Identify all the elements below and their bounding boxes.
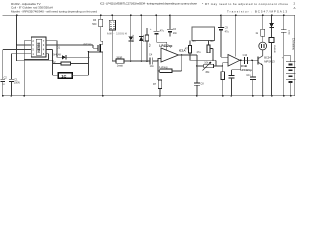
note text top middle [100, 2, 197, 6]
capacitor C8 [194, 66, 204, 96]
wire 555 pin2 row [24, 41, 31, 96]
resistor R8 [185, 40, 192, 60]
battery BT1 [282, 38, 296, 96]
resistor R7 [153, 71, 162, 96]
svg-text:47u: 47u [160, 29, 165, 32]
svg-text:1N4148: 1N4148 [52, 53, 61, 56]
wire op2 output row [240, 59, 258, 61]
svg-text:10n: 10n [150, 65, 155, 68]
svg-text:10n: 10n [173, 32, 178, 35]
node bias rail join [52, 60, 54, 62]
resistor R5 [145, 28, 150, 61]
resistor R4 damping [112, 56, 150, 67]
wire top supply bus [2, 14, 294, 16]
svg-text:AW - 100UH: AW - 100UH [107, 32, 127, 35]
wire op2 vplus [235, 15, 237, 56]
diode D2 [129, 15, 134, 61]
svg-text:1N4148: 1N4148 [142, 35, 144, 43]
node top bus junctions [16, 14, 285, 16]
wire to op-amp inverting input [158, 59, 161, 61]
capacitor C11 [229, 60, 241, 96]
svg-text:C10: C10 [243, 54, 248, 57]
potentiometer R9 [207, 40, 214, 61]
svg-text:1N4148: 1N4148 [273, 45, 275, 53]
svg-text:100N: 100N [14, 82, 20, 85]
inductor L2 choke [107, 15, 127, 61]
transistor Q2 BC547 [258, 50, 275, 96]
capacitor C9 [218, 15, 229, 57]
transistor Q1 IRF740 mosfet [83, 41, 103, 96]
node coil row joins [130, 60, 148, 62]
op-amp IC1A LF412 [159, 44, 186, 62]
diode D4 supply [269, 15, 274, 37]
wire source row [89, 51, 103, 53]
wire stage2 top rail [190, 60, 216, 66]
IC U1 555 timer [31, 37, 46, 57]
svg-text:1watt: 1watt [117, 65, 123, 68]
wire op1 output elbow [196, 55, 198, 66]
capacitor C4 coupling [149, 53, 158, 68]
resistor R13 [221, 66, 225, 96]
svg-text:LF412cp: LF412cp [241, 68, 253, 72]
svg-text:12v battery: 12v battery [292, 38, 295, 51]
wire to op2 inverting input [222, 63, 228, 66]
diode D1 1N4148 [52, 47, 89, 60]
wire clamp vertical [88, 52, 90, 75]
svg-text:IC2 - LF411/LM308/TLC271/62/ne: IC2 - LF411/LM308/TLC271/62/ne5534 - tun… [100, 2, 197, 6]
wire right edge [294, 15, 296, 96]
node bottom bus junctions [2, 95, 292, 97]
wire 555 pin8 wrap to ground [24, 54, 48, 60]
resistor R3 [92, 15, 103, 41]
wire bottom ground bus [2, 95, 294, 97]
svg-text:1C: 1C [61, 73, 66, 78]
svg-text:* R7 may need to be adjusted t: * R7 may need to be adjusted to componen… [202, 2, 288, 6]
wire bias rail [17, 60, 53, 62]
capacitor C12 under base [246, 60, 256, 96]
svg-text:IRF740: IRF740 [83, 44, 92, 47]
search coil L1 [53, 73, 89, 79]
op-amp IC1B LF412 [228, 55, 252, 72]
wire 555 feed vertical [16, 15, 18, 61]
wire 555 pin1 row [12, 54, 32, 79]
potentiometer R10 threshold [197, 62, 222, 74]
wire pin7 drop [49, 41, 58, 58]
wire pin4 drop [49, 50, 53, 76]
buzzer BZ1 [259, 36, 267, 56]
svg-text:560: 560 [92, 23, 97, 26]
capacitor C5 [150, 15, 167, 50]
note text top right [202, 2, 296, 14]
svg-text:100n: 100n [288, 30, 290, 36]
svg-text:390R: 390R [116, 56, 122, 59]
capacitor C10 series [243, 54, 258, 64]
switch SW1 [269, 37, 275, 95]
wire op-amp output [179, 54, 197, 56]
node pin tap [16, 44, 18, 46]
svg-text:Transistor : BC547/MPSA13: Transistor : BC547/MPSA13 [227, 10, 287, 14]
svg-text:1N4148: 1N4148 [132, 35, 134, 43]
potentiometer block R1 R2 [192, 27, 215, 43]
wire pin3 gate drive [49, 45, 98, 48]
svg-text:10n: 10n [246, 74, 251, 77]
capacitor C1 [9, 78, 20, 95]
capacitor C2 [1, 77, 8, 96]
svg-text:1.2meg: 1.2meg [159, 66, 168, 69]
svg-text:Mosfet - IRF635/740/940 - will: Mosfet - IRF635/740/940 - will need tuni… [11, 10, 97, 14]
svg-text:47u: 47u [197, 51, 202, 54]
note text block top left [11, 2, 97, 14]
svg-text:NE555: NE555 [37, 42, 41, 52]
wire 555 pin5 row [3, 50, 32, 79]
svg-text:LF412cp: LF412cp [159, 44, 172, 48]
svg-text:47u: 47u [225, 30, 230, 33]
resistor R14 [255, 15, 264, 36]
resistor R6 feedback 1.2meg [157, 55, 182, 73]
wire 555 pin6 row [17, 44, 32, 46]
capacitor C13 100n [281, 15, 290, 96]
resistor R2 [52, 61, 89, 65]
svg-text:A: A [294, 6, 296, 10]
diode D3 [139, 15, 144, 61]
capacitor C6 [167, 15, 178, 36]
svg-text:MPSA13: MPSA13 [264, 59, 275, 63]
wire 555 right stubs [46, 41, 49, 54]
